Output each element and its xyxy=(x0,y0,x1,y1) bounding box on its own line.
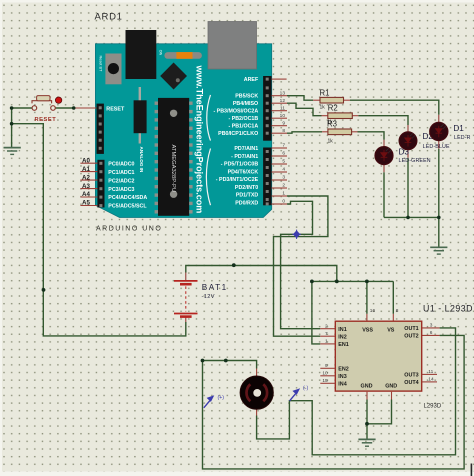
wire L293D gnd pins to ground xyxy=(367,392,392,439)
svg-text:AREF: AREF xyxy=(244,77,259,83)
svg-text:11: 11 xyxy=(428,369,433,375)
svg-text:PD2/INT0: PD2/INT0 xyxy=(235,185,258,191)
svg-text:PC3/ADC3: PC3/ADC3 xyxy=(108,187,134,193)
reset header xyxy=(97,104,125,154)
usb connector xyxy=(208,22,257,70)
svg-text:IN4: IN4 xyxy=(338,381,346,387)
wire TXD to IN2 xyxy=(274,196,336,336)
U1 pin numbers top xyxy=(370,308,399,314)
ic U1 L293D body xyxy=(335,321,421,391)
junction motor plus corner xyxy=(201,359,205,363)
svg-text:OUT2: OUT2 xyxy=(404,334,418,340)
svg-text:PD7/AIN1: PD7/AIN1 xyxy=(234,146,258,152)
svg-text:1k: 1k xyxy=(328,138,334,144)
junction led rail D2 xyxy=(406,216,410,220)
svg-text:10: 10 xyxy=(280,113,286,119)
svg-text:EN2: EN2 xyxy=(338,366,349,372)
junction led rail D1 xyxy=(437,216,441,220)
wire pin12 to R2 xyxy=(287,103,328,116)
wire rail to EN1 xyxy=(312,281,335,344)
svg-text:(-): (-) xyxy=(303,386,308,392)
svg-text:9: 9 xyxy=(325,363,328,369)
voltage regulator diamond xyxy=(160,63,187,90)
wire reset button to ground tap xyxy=(12,108,33,147)
svg-text:13: 13 xyxy=(280,90,286,96)
svg-text:PC4/ADC4/SDA: PC4/ADC4/SDA xyxy=(108,195,147,201)
pin group brackets xyxy=(206,95,210,205)
svg-text:- PD7/AIN1: - PD7/AIN1 xyxy=(231,154,258,160)
svg-text:- PD3/INT1/OC2E: - PD3/INT1/OC2E xyxy=(216,177,259,183)
junction at reset wire xyxy=(72,106,76,110)
svg-text:OUT3: OUT3 xyxy=(404,373,418,379)
wire D1 cathode down xyxy=(438,140,440,218)
svg-text:- PB3/MOSI/OC2A: - PB3/MOSI/OC2A xyxy=(213,109,258,115)
svg-text:(+): (+) xyxy=(218,395,225,401)
probe arrow minus xyxy=(290,388,301,401)
svg-text:PC5/ADC5/SCL: PC5/ADC5/SCL xyxy=(108,204,147,210)
svg-text:D1: D1 xyxy=(453,124,464,133)
wire RXD to IN1 xyxy=(281,201,336,328)
svg-text:PB0/ICP1/CLKO: PB0/ICP1/CLKO xyxy=(218,131,258,137)
wire led common rail xyxy=(384,216,439,218)
right pin stubs 7-0 xyxy=(272,148,288,204)
svg-text:GND: GND xyxy=(361,383,373,389)
svg-text:PD4/T6/XCK: PD4/T6/XCK xyxy=(228,169,259,175)
ground left xyxy=(4,148,21,155)
svg-text:GND: GND xyxy=(385,383,397,389)
U1 pin numbers right xyxy=(428,323,434,383)
junction on battery plus wire xyxy=(232,263,236,267)
svg-text:U1 - L293D: U1 - L293D xyxy=(423,304,473,314)
junction node rail EN1 xyxy=(310,280,314,284)
svg-text:- PD5/T1/OC0B: - PD5/T1/OC0B xyxy=(221,162,259,168)
pin numbers 7-0 xyxy=(282,143,285,205)
svg-text:3: 3 xyxy=(282,175,285,181)
svg-text:ARD1: ARD1 xyxy=(95,12,123,23)
svg-text:R1: R1 xyxy=(320,89,330,98)
svg-text:7: 7 xyxy=(325,331,328,337)
svg-text:1k: 1k xyxy=(320,104,326,110)
onboard reset button xyxy=(98,54,121,85)
svg-text:2: 2 xyxy=(282,183,285,189)
right header upper xyxy=(263,76,271,141)
svg-text:ATMEGA328P-PU: ATMEGA328P-PU xyxy=(170,145,176,193)
wire reset button to arduino RESET pin xyxy=(55,107,96,109)
svg-text:VSS: VSS xyxy=(362,327,373,333)
svg-text:RESET: RESET xyxy=(106,106,125,112)
svg-text:ANALOG IN: ANALOG IN xyxy=(139,147,144,173)
svg-text:PD1/TXD: PD1/TXD xyxy=(236,193,259,199)
svg-text:PC0/ADC0: PC0/ADC0 xyxy=(108,161,134,167)
U1 pin numbers left xyxy=(322,323,328,384)
svg-text:OUT1: OUT1 xyxy=(404,326,418,332)
power jack xyxy=(126,30,157,79)
junction node rail battery xyxy=(335,280,339,284)
capacitor on board xyxy=(134,87,147,144)
svg-text:15: 15 xyxy=(322,378,328,384)
svg-text:R2: R2 xyxy=(328,103,338,112)
svg-text:14: 14 xyxy=(428,377,434,383)
ground led rail xyxy=(430,247,447,254)
resistor R1 xyxy=(320,89,344,111)
wire power rail xyxy=(312,280,393,282)
analog header A0-A5 xyxy=(97,160,104,208)
fuse xyxy=(158,50,202,59)
led D1 xyxy=(430,122,448,140)
svg-text:16: 16 xyxy=(370,308,376,314)
wire OUT1 to motor minus xyxy=(257,328,456,455)
svg-text:- PB2/OC1B: - PB2/OC1B xyxy=(228,116,258,122)
ground L293D xyxy=(358,439,375,446)
atmega328 chip xyxy=(155,98,193,216)
wire rail to led ground xyxy=(438,217,440,247)
wire rail to VSS pin16 xyxy=(366,281,368,321)
wire battery plus to power rail xyxy=(186,266,337,282)
wire pin13 to R1 xyxy=(287,96,320,101)
junction node rail VSS xyxy=(365,280,369,284)
junction on left vertical wire xyxy=(42,288,46,292)
svg-text:EN1: EN1 xyxy=(338,342,349,348)
svg-text:7: 7 xyxy=(282,143,285,149)
resistor R3 xyxy=(327,120,352,145)
svg-text:2: 2 xyxy=(325,323,328,329)
led D3 xyxy=(375,147,393,165)
svg-text:PC1/ADC1: PC1/ADC1 xyxy=(108,170,134,176)
svg-text:LED-BLUE: LED-BLUE xyxy=(423,144,450,150)
wire pin8 to R3 xyxy=(287,132,328,133)
A0-A5 labels xyxy=(82,157,90,206)
svg-text:1: 1 xyxy=(325,339,328,345)
svg-text:0: 0 xyxy=(282,199,285,205)
svg-text:R3: R3 xyxy=(327,120,337,129)
svg-text:PB4/MISO: PB4/MISO xyxy=(233,101,258,107)
board pin labels left PC xyxy=(108,161,147,209)
svg-text:- PB1/OC1A: - PB1/OC1A xyxy=(228,124,258,130)
wire D3 cathode down xyxy=(383,164,385,218)
probe arrow plus xyxy=(204,395,215,408)
U1 internal labels xyxy=(338,326,418,389)
battery BAT1 xyxy=(174,281,198,317)
svg-text:6: 6 xyxy=(430,330,433,336)
svg-text:3: 3 xyxy=(430,323,433,329)
node marker diamond xyxy=(292,230,301,239)
board pin labels right xyxy=(213,77,259,206)
svg-text:IN1: IN1 xyxy=(338,327,346,333)
junction at ground tap xyxy=(10,122,14,126)
wire OUT2 to motor plus xyxy=(203,335,465,469)
led D2 xyxy=(399,132,417,150)
junction gnd pins xyxy=(365,422,369,426)
resistor R2 xyxy=(327,103,352,125)
svg-text:LED-GREEN: LED-GREEN xyxy=(399,158,431,164)
svg-text:ON: ON xyxy=(158,50,162,56)
svg-text:BAT1: BAT1 xyxy=(202,283,228,292)
sheet corner mark xyxy=(470,464,472,476)
svg-text:6: 6 xyxy=(282,151,285,157)
svg-text:Reset BT: Reset BT xyxy=(98,56,102,73)
svg-text:5: 5 xyxy=(282,159,285,165)
svg-text:LED-R: LED-R xyxy=(454,135,471,141)
svg-text:www.TheEngineeringProjects.com: www.TheEngineeringProjects.com xyxy=(194,65,204,214)
svg-text:OUT4: OUT4 xyxy=(404,380,418,386)
svg-text:1: 1 xyxy=(282,191,285,197)
svg-text:L293D: L293D xyxy=(424,403,442,409)
push button RESET xyxy=(32,96,62,123)
svg-text:8: 8 xyxy=(396,308,399,314)
A0-A5 pin stubs xyxy=(80,163,97,205)
U1 unconnected stubs OUT3 OUT4 xyxy=(422,374,437,382)
svg-text:IN3: IN3 xyxy=(338,374,346,380)
wire rail to VS pin8 xyxy=(392,281,394,321)
junction motor plus wire xyxy=(224,359,228,363)
junction at reset button left xyxy=(10,106,14,110)
svg-text:11: 11 xyxy=(280,105,285,111)
wire R3 to D3 anode xyxy=(352,132,384,148)
wire D2 cathode down xyxy=(407,149,409,218)
right pin stubs 13-8 xyxy=(272,96,288,134)
svg-text:10: 10 xyxy=(322,370,328,376)
svg-text:PD0/RXD: PD0/RXD xyxy=(235,200,258,206)
U1 unconnected stubs EN2 IN3 IN4 xyxy=(320,368,335,383)
motor M1 xyxy=(240,376,273,409)
svg-text:RESET: RESET xyxy=(35,117,57,123)
wire R2 to D2 anode xyxy=(352,116,408,134)
svg-text:VS: VS xyxy=(387,327,395,333)
svg-text:PB5/SCK: PB5/SCK xyxy=(235,94,258,100)
AREF pin stub xyxy=(272,78,287,80)
wire R1 to D1 anode xyxy=(344,100,439,124)
svg-text:IN2: IN2 xyxy=(338,334,346,340)
svg-text:12: 12 xyxy=(280,98,286,104)
wire ground branch to battery minus xyxy=(12,124,186,336)
right header lower xyxy=(263,148,271,206)
svg-text:-12V: -12V xyxy=(202,294,215,300)
arduino board ARD1 xyxy=(95,44,271,218)
pin numbers 13-8 xyxy=(280,90,286,133)
svg-text:PC2/ADC2: PC2/ADC2 xyxy=(108,178,134,184)
svg-text:4: 4 xyxy=(282,167,285,173)
svg-text:ARDUINO UNO: ARDUINO UNO xyxy=(96,226,162,233)
svg-text:9: 9 xyxy=(282,120,285,126)
svg-text:8: 8 xyxy=(282,128,285,134)
